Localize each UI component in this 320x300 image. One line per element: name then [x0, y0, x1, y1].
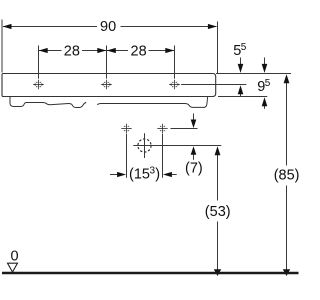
dimension 15-3 leader right [170, 174, 176, 176]
drain centerline vertical [144, 133, 146, 158]
svg-text:5: 5 [265, 78, 271, 89]
arrow 53 bottom (down) [214, 269, 221, 276]
arrow 85 bottom (down) [283, 269, 290, 276]
svg-text:(53): (53) [205, 204, 231, 220]
arrow 5-5 bottom (up) [238, 85, 244, 94]
reference line basin top right [216, 73, 291, 75]
extension line left edge [1, 20, 3, 73]
tap hole mark left [33, 80, 43, 90]
extension line tap hole left [38, 46, 40, 79]
arrow 85 top (up) [284, 74, 290, 83]
arrow 9-5 bottom (up) [262, 97, 268, 106]
drain centerline horizontal [133, 145, 221, 147]
washbasin apron left piece [10, 97, 69, 107]
extension line fixing right [162, 134, 164, 178]
extension line right edge [217, 22, 219, 74]
arrow 28b right [165, 48, 174, 53]
svg-text:5: 5 [241, 42, 247, 53]
dimension line 90 [3, 26, 97, 28]
extension line tap hole center [106, 46, 108, 79]
svg-text:0: 0 [11, 249, 19, 265]
fixing hole mark left [121, 124, 131, 134]
reference line rim bottom right [218, 96, 267, 98]
arrow 7 top (down) [191, 120, 197, 129]
dimension line 85 vertical [286, 83, 288, 166]
dimension line 53 vertical [217, 155, 219, 201]
drain circle dashed [138, 139, 151, 152]
extension line tap hole right [174, 46, 176, 79]
arrow 9-5 top (down) [262, 64, 268, 73]
fixing hole mark right [157, 124, 167, 134]
arrow 5-5 top (down) [238, 64, 244, 73]
reference line tap centerline right [181, 84, 246, 86]
tap hole mark center [101, 80, 111, 90]
svg-text:28: 28 [131, 44, 147, 60]
arrow 28b left [107, 48, 116, 53]
dimension 7 arrow stems [193, 114, 195, 121]
datum triangle [8, 263, 18, 272]
svg-text:(85): (85) [274, 168, 300, 184]
arrow 53 top (up) [215, 146, 221, 155]
extension line fixing left [126, 134, 128, 178]
svg-text:90: 90 [100, 19, 116, 35]
arrow 90 left [3, 24, 12, 29]
dimension 5-5 arrows stems [240, 58, 242, 66]
arrows (filled) [3, 24, 291, 276]
dimension 9-5 arrows stems [264, 58, 266, 66]
floor line [2, 272, 299, 274]
svg-text:(7): (7) [185, 160, 203, 176]
arrow 28a left [39, 48, 48, 53]
tap hole mark right [169, 80, 179, 90]
arrow 90 right [208, 24, 217, 29]
arrow 7 bottom (up) [191, 146, 197, 155]
dimension line 28 left [39, 50, 62, 52]
dimension line 28 right [107, 50, 128, 52]
dimension 15-3 leader left [110, 174, 118, 176]
arrow 15-3 left (right-pointing) [117, 172, 126, 177]
arrow 15-3 right (left-pointing) [163, 172, 172, 177]
svg-text:28: 28 [64, 44, 80, 60]
washbasin rim outline (front view) [2, 74, 216, 97]
washbasin apron long tray [97, 97, 207, 107]
svg-text:): ) [155, 167, 160, 183]
washbasin apron middle dip [69, 102, 87, 107]
fixing hole reference line right [171, 128, 198, 130]
svg-text:(15: (15 [129, 167, 150, 183]
arrow 28a right [97, 48, 106, 53]
